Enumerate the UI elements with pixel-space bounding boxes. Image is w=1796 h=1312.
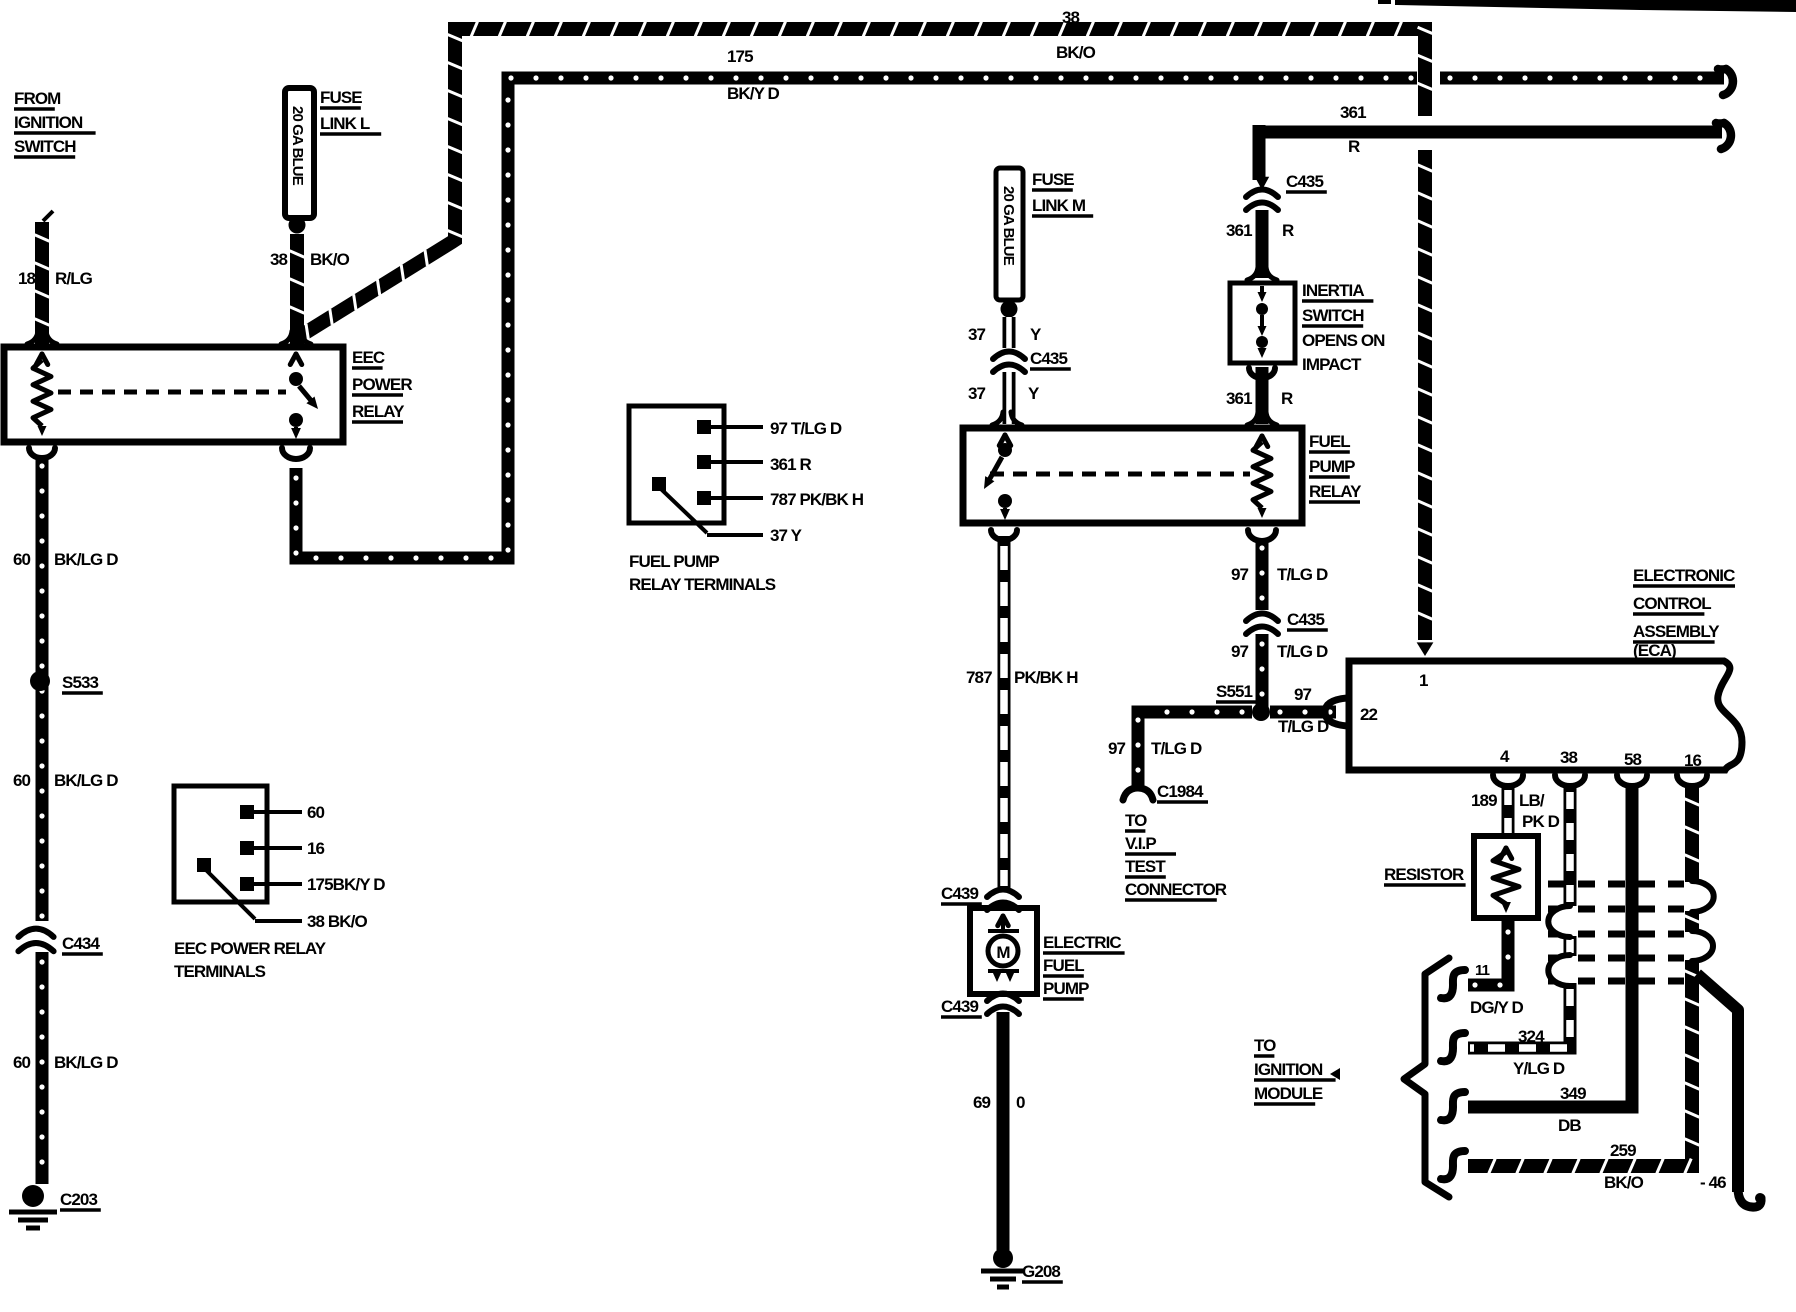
svg-text:G208: G208 bbox=[1022, 1262, 1060, 1281]
svg-text:97: 97 bbox=[1294, 685, 1312, 704]
svg-text:97 T/LG D: 97 T/LG D bbox=[770, 419, 842, 438]
svg-text:T/LG D: T/LG D bbox=[1278, 717, 1329, 736]
svg-text:FUSE: FUSE bbox=[320, 88, 362, 107]
svg-text:97: 97 bbox=[1231, 642, 1249, 661]
svg-text:BK/LG D: BK/LG D bbox=[54, 771, 118, 790]
svg-text:C435: C435 bbox=[1286, 172, 1323, 191]
svg-text:MODULE: MODULE bbox=[1254, 1084, 1323, 1103]
svg-text:38 BK/O: 38 BK/O bbox=[307, 912, 368, 931]
svg-text:ELECTRONIC: ELECTRONIC bbox=[1633, 566, 1735, 585]
svg-text:97: 97 bbox=[1108, 739, 1126, 758]
svg-text:Y/LG D: Y/LG D bbox=[1513, 1059, 1565, 1078]
svg-text:18: 18 bbox=[18, 269, 36, 288]
svg-text:TO: TO bbox=[1254, 1036, 1276, 1055]
svg-text:(ECA): (ECA) bbox=[1633, 641, 1676, 660]
svg-text:22: 22 bbox=[1360, 705, 1378, 724]
svg-text:60: 60 bbox=[13, 550, 31, 569]
svg-text:PK D: PK D bbox=[1522, 812, 1560, 831]
svg-text:58: 58 bbox=[1624, 750, 1642, 769]
svg-text:BK/Y D: BK/Y D bbox=[727, 84, 780, 103]
svg-text:20 GA BLUE: 20 GA BLUE bbox=[289, 106, 306, 186]
svg-text:349: 349 bbox=[1560, 1084, 1586, 1103]
svg-text:T/LG D: T/LG D bbox=[1151, 739, 1202, 758]
svg-text:BK/O: BK/O bbox=[1056, 43, 1096, 62]
svg-text:361: 361 bbox=[1340, 103, 1366, 122]
svg-text:ELECTRIC: ELECTRIC bbox=[1043, 933, 1121, 952]
svg-text:787 PK/BK H: 787 PK/BK H bbox=[770, 490, 864, 509]
svg-text:TERMINALS: TERMINALS bbox=[174, 962, 266, 981]
svg-text:RELAY: RELAY bbox=[352, 402, 405, 421]
svg-text:R/LG: R/LG bbox=[55, 269, 93, 288]
svg-text:FUEL: FUEL bbox=[1309, 432, 1350, 451]
svg-text:TEST: TEST bbox=[1125, 857, 1166, 876]
svg-text:37: 37 bbox=[968, 384, 986, 403]
svg-text:361: 361 bbox=[1226, 221, 1252, 240]
svg-text:259: 259 bbox=[1610, 1141, 1636, 1160]
svg-text:Y: Y bbox=[1030, 325, 1042, 344]
svg-text:T/LG D: T/LG D bbox=[1277, 642, 1328, 661]
svg-text:FROM: FROM bbox=[14, 89, 61, 108]
svg-text:787: 787 bbox=[966, 668, 992, 687]
svg-text:38: 38 bbox=[1062, 8, 1080, 27]
svg-text:FUEL PUMP: FUEL PUMP bbox=[629, 552, 719, 571]
svg-text:EEC POWER RELAY: EEC POWER RELAY bbox=[174, 939, 327, 958]
svg-text:60: 60 bbox=[307, 803, 325, 822]
svg-text:0: 0 bbox=[1016, 1093, 1025, 1112]
svg-text:DB: DB bbox=[1558, 1116, 1581, 1135]
svg-text:R: R bbox=[1348, 137, 1360, 156]
svg-text:C435: C435 bbox=[1287, 610, 1324, 629]
svg-text:C203: C203 bbox=[60, 1190, 97, 1209]
svg-text:DG/Y D: DG/Y D bbox=[1470, 998, 1523, 1017]
svg-text:1: 1 bbox=[1419, 671, 1428, 690]
svg-text:38: 38 bbox=[1560, 748, 1578, 767]
svg-text:37 Y: 37 Y bbox=[770, 526, 803, 545]
svg-text:IGNITION: IGNITION bbox=[14, 113, 83, 132]
svg-text:R: R bbox=[1282, 221, 1294, 240]
svg-text:C435: C435 bbox=[1030, 349, 1067, 368]
svg-text:BK/LG D: BK/LG D bbox=[54, 550, 118, 569]
svg-text:SWITCH: SWITCH bbox=[14, 137, 76, 156]
svg-text:4: 4 bbox=[1500, 747, 1510, 766]
svg-text:SWITCH: SWITCH bbox=[1302, 306, 1364, 325]
svg-text:324: 324 bbox=[1518, 1027, 1545, 1046]
svg-text:11: 11 bbox=[1475, 962, 1490, 979]
svg-text:37: 37 bbox=[968, 325, 986, 344]
svg-text:FUSE: FUSE bbox=[1032, 170, 1074, 189]
svg-text:ASSEMBLY: ASSEMBLY bbox=[1633, 622, 1720, 641]
svg-text:EEC: EEC bbox=[352, 348, 385, 367]
svg-text:CONNECTOR: CONNECTOR bbox=[1125, 880, 1227, 899]
svg-text:S551: S551 bbox=[1216, 682, 1253, 701]
svg-text:LINK M: LINK M bbox=[1032, 196, 1086, 215]
svg-text:16: 16 bbox=[1684, 751, 1702, 770]
svg-text:R: R bbox=[1281, 389, 1293, 408]
svg-text:- 46: - 46 bbox=[1700, 1173, 1726, 1192]
svg-text:Y: Y bbox=[1028, 384, 1040, 403]
svg-text:IGNITION: IGNITION bbox=[1254, 1060, 1323, 1079]
svg-text:IMPACT: IMPACT bbox=[1302, 355, 1362, 374]
svg-text:M: M bbox=[996, 943, 1010, 962]
svg-text:189: 189 bbox=[1471, 791, 1497, 810]
svg-text:20 GA BLUE: 20 GA BLUE bbox=[1000, 186, 1017, 266]
svg-text:TO: TO bbox=[1125, 811, 1147, 830]
svg-text:361: 361 bbox=[1226, 389, 1252, 408]
svg-text:LB/: LB/ bbox=[1519, 791, 1545, 810]
svg-text:60: 60 bbox=[13, 771, 31, 790]
svg-text:BK/O: BK/O bbox=[1604, 1173, 1644, 1192]
svg-text:PUMP: PUMP bbox=[1309, 457, 1355, 476]
svg-text:RELAY TERMINALS: RELAY TERMINALS bbox=[629, 575, 776, 594]
svg-text:LINK L: LINK L bbox=[320, 114, 370, 133]
svg-text:175BK/Y D: 175BK/Y D bbox=[307, 875, 385, 894]
svg-text:RELAY: RELAY bbox=[1309, 482, 1362, 501]
svg-text:38: 38 bbox=[270, 250, 288, 269]
svg-text:60: 60 bbox=[13, 1053, 31, 1072]
svg-text:V.I.P: V.I.P bbox=[1125, 834, 1156, 853]
svg-text:BK/LG D: BK/LG D bbox=[54, 1053, 118, 1072]
svg-text:RESISTOR: RESISTOR bbox=[1384, 865, 1464, 884]
svg-text:INERTIA: INERTIA bbox=[1302, 281, 1364, 300]
svg-text:C1984: C1984 bbox=[1157, 782, 1204, 801]
svg-text:PUMP: PUMP bbox=[1043, 979, 1089, 998]
svg-text:16: 16 bbox=[307, 839, 325, 858]
svg-text:C434: C434 bbox=[62, 934, 100, 953]
svg-text:BK/O: BK/O bbox=[310, 250, 350, 269]
svg-text:S533: S533 bbox=[62, 673, 99, 692]
svg-text:C439: C439 bbox=[941, 997, 978, 1016]
svg-text:97: 97 bbox=[1231, 565, 1249, 584]
svg-text:T/LG D: T/LG D bbox=[1277, 565, 1328, 584]
svg-text:OPENS ON: OPENS ON bbox=[1302, 331, 1385, 350]
svg-text:FUEL: FUEL bbox=[1043, 956, 1084, 975]
svg-text:CONTROL: CONTROL bbox=[1633, 594, 1711, 613]
svg-text:69: 69 bbox=[973, 1093, 991, 1112]
svg-text:PK/BK H: PK/BK H bbox=[1014, 668, 1078, 687]
svg-text:175: 175 bbox=[727, 47, 753, 66]
svg-text:C439: C439 bbox=[941, 884, 978, 903]
svg-text:361 R: 361 R bbox=[770, 455, 811, 474]
svg-text:POWER: POWER bbox=[352, 375, 412, 394]
